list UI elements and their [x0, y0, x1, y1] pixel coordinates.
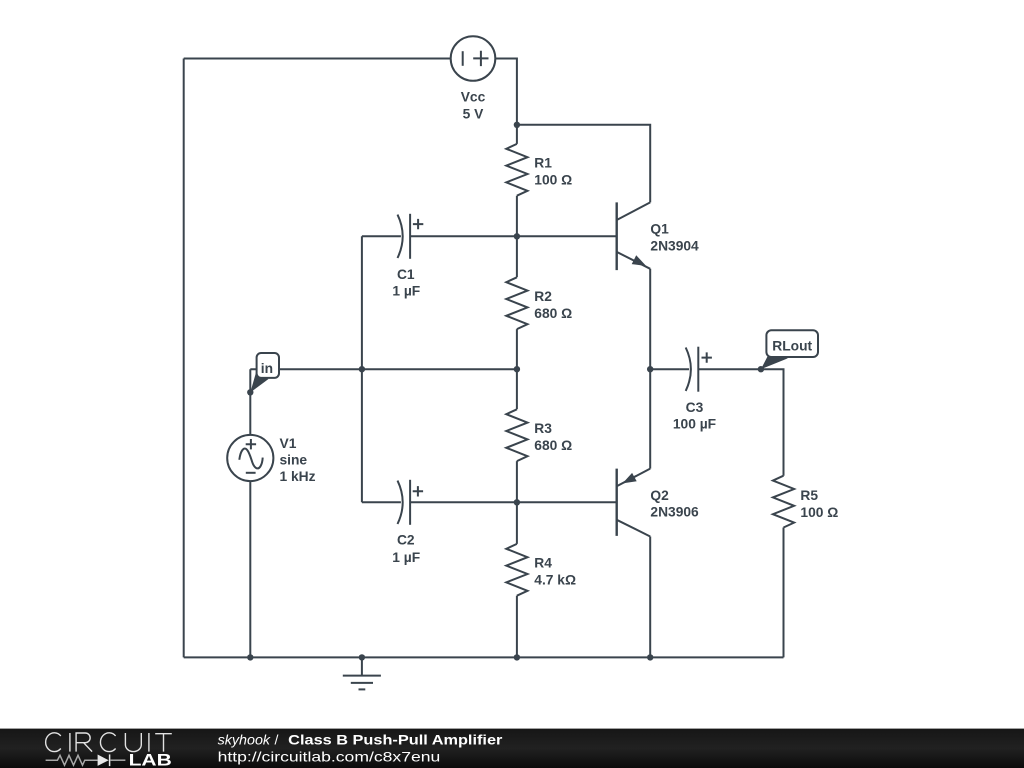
- capacitor C3: [686, 347, 712, 392]
- svg-text:R2: R2: [534, 289, 552, 304]
- svg-text:R5: R5: [800, 488, 818, 503]
- wire node A branch to Q1 collector: [517, 125, 650, 203]
- node at R4 bottom: [514, 654, 520, 660]
- svg-text:Q2: Q2: [650, 488, 669, 503]
- wire mid row in-node to center column: [250, 368, 517, 370]
- wire R5 bottom to bottom rail: [783, 528, 785, 658]
- resistor R5: [773, 476, 794, 528]
- wire Vcc right to center column corner: [495, 59, 517, 144]
- svg-text:Class B Push-Pull Amplifier: Class B Push-Pull Amplifier: [288, 732, 503, 748]
- svg-text:1 kHz: 1 kHz: [280, 469, 316, 484]
- node at emitter out: [647, 366, 653, 372]
- node at R1 top: [514, 122, 520, 128]
- node at RLout: [758, 366, 764, 372]
- wire C2 left lead: [362, 501, 401, 503]
- wire C2 right lead to Q2 base: [410, 501, 617, 503]
- wire C1 right lead: [410, 235, 517, 237]
- resistor R1: [506, 144, 527, 196]
- svg-text:680 Ω: 680 Ω: [534, 306, 572, 321]
- svg-text:skyhook: skyhook: [218, 732, 272, 748]
- svg-text:R3: R3: [534, 421, 552, 436]
- wire left rail vertical: [183, 59, 185, 658]
- wire top from Vcc left to left rail: [184, 58, 451, 60]
- svg-text:sine: sine: [280, 453, 308, 468]
- svg-text:Vcc: Vcc: [461, 90, 486, 105]
- wire center column R1 to C1 row: [516, 196, 518, 278]
- node at C2/Q2 base row: [514, 499, 520, 505]
- node at ground: [359, 654, 365, 660]
- footer logo resistor-diode glyph: [46, 754, 126, 766]
- wire out node to C3 left: [650, 368, 689, 370]
- svg-text:/: /: [275, 732, 279, 748]
- svg-text:1 µF: 1 µF: [392, 550, 420, 565]
- wire in-node stub down to V1 top: [249, 369, 251, 435]
- capacitor C2: [398, 480, 424, 525]
- flag in: [250, 353, 279, 393]
- svg-text:2N3904: 2N3904: [650, 239, 699, 254]
- svg-text:V1: V1: [280, 436, 297, 451]
- node at in flag: [247, 389, 253, 395]
- capacitor C1: [398, 214, 424, 259]
- node at V1 bottom: [247, 654, 253, 660]
- voltage source Vcc: [451, 36, 496, 81]
- svg-text:RLout: RLout: [772, 338, 812, 353]
- svg-text:2N3906: 2N3906: [650, 505, 699, 520]
- resistor R2: [506, 277, 527, 329]
- svg-text:4.7 kΩ: 4.7 kΩ: [534, 573, 576, 588]
- svg-text:Q1: Q1: [650, 222, 669, 237]
- wire Q2 collector down to bottom rail: [649, 537, 651, 658]
- flag RLout: [761, 330, 818, 369]
- svg-text:C1: C1: [397, 267, 415, 282]
- footer bar: [0, 729, 1024, 768]
- wire center column R3 to R4: [516, 461, 518, 544]
- svg-text:100 Ω: 100 Ω: [800, 505, 838, 520]
- svg-text:680 Ω: 680 Ω: [534, 438, 572, 453]
- svg-text:1 µF: 1 µF: [392, 283, 420, 298]
- wire C3 right to R5 top corner: [698, 369, 783, 476]
- wire cap column C1 to C2: [361, 236, 363, 502]
- node at C1/Q1 base row: [514, 233, 520, 239]
- voltage source V1: [227, 435, 273, 481]
- wire emitter column Q1 to Q2: [649, 269, 651, 469]
- svg-text:R1: R1: [534, 155, 552, 170]
- svg-text:R4: R4: [534, 555, 552, 570]
- svg-text:100 Ω: 100 Ω: [534, 173, 572, 188]
- transistor Q2: [617, 469, 651, 537]
- node at mid row center: [514, 366, 520, 372]
- transistor Q1: [617, 202, 651, 270]
- wire center column R4 to bottom rail: [516, 596, 518, 658]
- wire Q1 base row: [517, 235, 617, 237]
- wire center column R2 to mid row: [516, 329, 518, 409]
- svg-text:C2: C2: [397, 533, 415, 548]
- ground: [343, 657, 381, 689]
- footer logo CIRCUIT drawn letters: [46, 733, 172, 752]
- node at cap column mid: [359, 366, 365, 372]
- node at Q2 collector bottom: [647, 654, 653, 660]
- wire C1 left lead: [362, 235, 401, 237]
- svg-text:LAB: LAB: [129, 751, 172, 768]
- wire bottom rail: [184, 656, 784, 658]
- svg-text:100 µF: 100 µF: [673, 416, 716, 431]
- svg-text:in: in: [261, 361, 273, 376]
- svg-text:http://circuitlab.com/c8x7enu: http://circuitlab.com/c8x7enu: [218, 748, 441, 764]
- svg-text:C3: C3: [686, 400, 704, 415]
- svg-text:5 V: 5 V: [463, 106, 485, 121]
- resistor R4: [506, 544, 527, 596]
- wire V1 bottom to bottom rail: [249, 481, 251, 657]
- resistor R3: [506, 409, 527, 461]
